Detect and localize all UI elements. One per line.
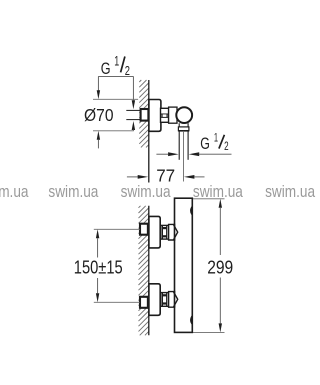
svg-text:G: G	[101, 59, 111, 78]
svg-text:swim.ua: swim.ua	[121, 183, 172, 201]
dimension G1/2 top bracket	[97, 76, 135, 109]
front view: bottom union escutcheon	[149, 284, 160, 316]
top view: hose collar	[178, 127, 189, 131]
svg-text:2: 2	[125, 63, 130, 78]
svg-text:1: 1	[214, 132, 218, 144]
svg-text:1: 1	[114, 53, 119, 68]
front view: body edge over cone (top)	[174, 224, 176, 241]
dimension G1/2 right arrows	[156, 152, 231, 156]
svg-text:299: 299	[207, 257, 233, 277]
top view: outlet pipe centre line	[183, 131, 185, 182]
front view: top union wall nut	[140, 224, 148, 235]
top view: outlet neck	[179, 123, 188, 127]
top view: valve inlet cylinder	[169, 107, 177, 123]
dimension G1/2 top label	[101, 53, 130, 78]
front view: bottom union cone	[169, 292, 178, 308]
dimension G1/2 right label	[200, 132, 228, 153]
dimension 77 arrows	[127, 175, 205, 179]
svg-text:swim.ua: swim.ua	[48, 183, 99, 201]
top view: wall connection nut	[141, 109, 149, 121]
dimension 299 line and arrows	[219, 199, 222, 333]
dimension 150+-15 leader top	[94, 228, 140, 230]
front view: wall hatching	[139, 206, 149, 335]
svg-text:150±15: 150±15	[74, 258, 123, 278]
top view: thermostat valve head (circle)	[176, 107, 192, 123]
front view: thermostat body	[175, 198, 193, 332]
svg-text:2: 2	[224, 141, 229, 153]
front view: top union hex nut	[161, 225, 169, 239]
dimension G1/2 top lower arrow	[132, 121, 135, 131]
top view: supply pipe in wall	[126, 110, 140, 119]
svg-text:Ø70: Ø70	[84, 105, 114, 125]
front view: top union escutcheon	[149, 216, 160, 248]
front view: body edge over cone (bottom)	[174, 291, 176, 308]
front view: knob button top	[190, 207, 193, 214]
front view: bottom union wall nut	[140, 297, 148, 308]
svg-text:swim.ua: swim.ua	[265, 183, 316, 201]
front view: bottom union hex nut	[161, 293, 169, 307]
svg-text:swim.ua: swim.ua	[0, 183, 29, 201]
front view: wall line	[148, 206, 150, 335]
top view: wall line	[148, 80, 150, 183]
dimension 150+-15 leader bottom	[94, 301, 140, 303]
top view: outlet pipe	[179, 131, 188, 160]
front view: body extension line bottom	[192, 331, 224, 333]
dimension O70 leader lines	[93, 99, 138, 131]
svg-text:77: 77	[156, 165, 175, 185]
top view: wall hatching	[139, 80, 148, 147]
top view: escutcheon (O70 flange)	[149, 100, 161, 132]
top view: union hex nut	[161, 108, 169, 122]
dimension O70 lower arrow	[97, 131, 100, 149]
dimension 150+-15 line and arrows	[96, 229, 99, 302]
front view: knob button bottom	[190, 317, 193, 324]
front view: body extension line top	[192, 198, 224, 200]
front view: top union cone	[169, 224, 178, 240]
svg-text:G: G	[200, 135, 210, 153]
